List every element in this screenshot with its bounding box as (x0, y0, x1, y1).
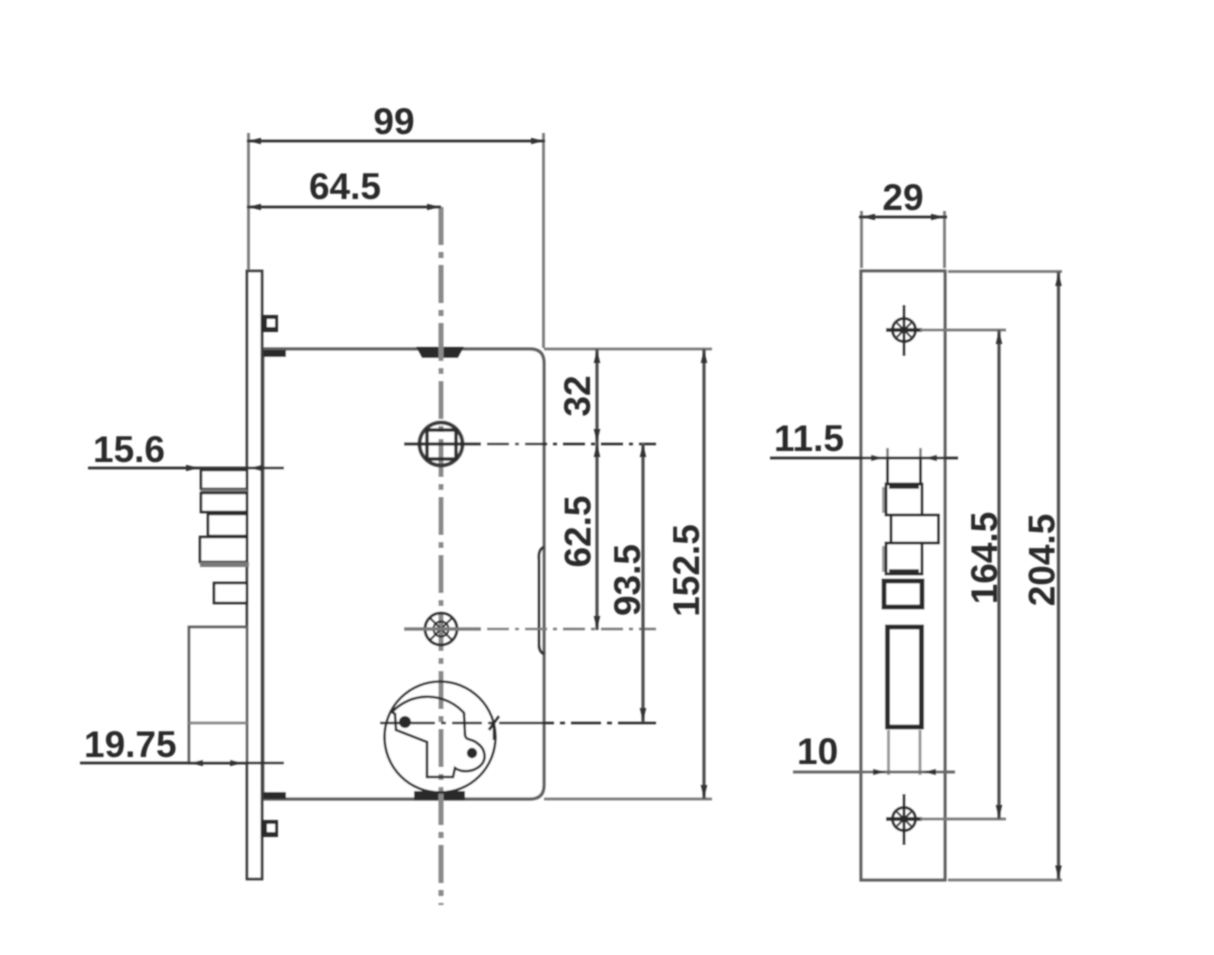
svg-text:15.6: 15.6 (93, 429, 165, 470)
svg-text:164.5: 164.5 (964, 512, 1005, 605)
svg-text:99: 99 (373, 101, 414, 142)
svg-text:32: 32 (557, 375, 598, 416)
svg-text:64.5: 64.5 (309, 166, 381, 207)
svg-text:93.5: 93.5 (607, 544, 648, 616)
svg-text:62.5: 62.5 (558, 495, 599, 567)
svg-text:10: 10 (797, 731, 838, 772)
svg-text:152.5: 152.5 (666, 524, 707, 617)
svg-text:29: 29 (882, 177, 923, 218)
svg-text:204.5: 204.5 (1022, 514, 1063, 607)
svg-text:19.75: 19.75 (84, 724, 177, 765)
svg-text:11.5: 11.5 (774, 418, 844, 459)
